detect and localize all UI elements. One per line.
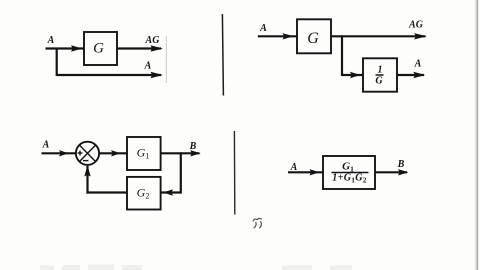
wire input to G xyxy=(258,35,297,37)
wire branch horizontal xyxy=(57,74,161,76)
block fraction bar xyxy=(332,172,369,174)
right edge scan shadow xyxy=(477,0,479,270)
arrowhead into summer xyxy=(59,150,69,156)
block G1/(1+G1G2) xyxy=(323,156,375,189)
block G xyxy=(297,19,331,53)
block 1/G xyxy=(363,58,397,91)
svg-text:B: B xyxy=(397,159,405,170)
svg-text:A: A xyxy=(42,140,50,151)
wire G output to AG xyxy=(331,35,426,37)
arrowhead into G xyxy=(71,45,82,51)
arrowhead up into summer xyxy=(84,165,90,176)
wire summer to G1 xyxy=(99,152,127,154)
wire feedback branch down xyxy=(180,152,182,193)
arrowhead AG output xyxy=(414,33,427,39)
svg-text:G1: G1 xyxy=(342,161,354,174)
svg-text:1: 1 xyxy=(378,65,383,76)
wire input to block xyxy=(288,171,323,173)
block G2 xyxy=(127,177,161,210)
wire feedback up to summer xyxy=(86,166,88,194)
svg-text:G2: G2 xyxy=(137,185,150,200)
wire input to G xyxy=(46,47,85,49)
svg-text:A: A xyxy=(144,61,152,72)
handwritten smudge mark xyxy=(253,218,262,227)
svg-text:1+G1G2: 1+G1G2 xyxy=(332,173,367,185)
summer plus sign xyxy=(78,152,83,154)
wire branch down from G output xyxy=(341,35,343,76)
svg-text:A: A xyxy=(47,35,55,46)
block 1/G fraction bar xyxy=(376,74,384,76)
arrowhead into G1 xyxy=(111,150,121,156)
summing junction circle xyxy=(76,142,99,165)
faint cut-off text at bottom edge xyxy=(40,265,352,270)
wire G output xyxy=(117,47,161,49)
arrowhead AG output xyxy=(151,45,164,51)
wire G1 output to B xyxy=(161,152,200,154)
faint scan line right of top-left diagram xyxy=(165,36,167,83)
divider line top center xyxy=(222,14,223,96)
svg-text:AG: AG xyxy=(408,20,424,31)
svg-text:G: G xyxy=(307,30,319,47)
wire branch down from input node xyxy=(56,48,58,77)
svg-text:A: A xyxy=(259,23,267,34)
arrowhead into G xyxy=(283,33,294,39)
wire input to summer xyxy=(42,152,76,154)
svg-text:B: B xyxy=(189,141,197,152)
arrowhead branch A output xyxy=(151,72,164,78)
block G1 xyxy=(127,137,161,170)
summer minus sign xyxy=(83,160,88,162)
arrowhead B output xyxy=(190,150,201,156)
arrowhead A output xyxy=(413,72,425,78)
wire feedback into G2 xyxy=(161,191,181,193)
divider line bottom center xyxy=(233,131,235,215)
svg-text:AG: AG xyxy=(145,35,161,46)
wire branch into 1/G xyxy=(342,74,363,76)
svg-text:G: G xyxy=(375,75,383,86)
arrowhead into 1/G xyxy=(350,72,361,78)
arrowhead into G2 xyxy=(163,189,173,195)
arrowhead into block xyxy=(310,169,320,175)
svg-text:G1: G1 xyxy=(137,146,150,161)
wire G2 output left xyxy=(86,191,127,193)
wire block output to B xyxy=(375,171,407,173)
svg-text:A: A xyxy=(414,59,422,70)
summing junction cross xyxy=(80,145,96,161)
svg-text:G: G xyxy=(93,40,104,56)
wire 1/G output xyxy=(397,74,424,76)
arrowhead B output xyxy=(398,169,409,175)
block G xyxy=(84,32,117,65)
